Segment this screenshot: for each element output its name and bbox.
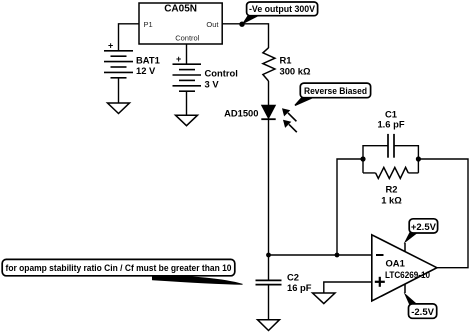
svg-text:R2: R2 xyxy=(386,184,398,195)
svg-text:+: + xyxy=(108,41,113,51)
wire feedback tap up and right xyxy=(337,159,363,255)
svg-text:3 V: 3 V xyxy=(205,79,220,90)
svg-text:R1: R1 xyxy=(280,55,292,66)
node junction (feedback tap) xyxy=(335,253,340,258)
svg-text:300 kΩ: 300 kΩ xyxy=(280,66,311,77)
wire Control battery to ground xyxy=(186,91,188,115)
feedback network frame wires xyxy=(363,146,418,173)
svg-text:OA1: OA1 xyxy=(386,258,405,269)
callout -2.5V supply xyxy=(404,284,437,318)
ground (op-amp +) xyxy=(313,293,336,304)
svg-text:BAT1: BAT1 xyxy=(136,55,160,66)
svg-text:1.6 pF: 1.6 pF xyxy=(377,118,404,129)
svg-text:P1: P1 xyxy=(144,20,153,29)
capacitor C2 xyxy=(256,255,312,293)
svg-text:Control: Control xyxy=(175,34,200,43)
ground (C2) xyxy=(258,320,280,331)
IC U1 CA05N box xyxy=(139,3,222,44)
node right feedback junction xyxy=(416,156,421,161)
wire AD1500 down to input node xyxy=(268,119,270,255)
wire feedback right to output node xyxy=(418,159,468,268)
svg-text:+2.5V: +2.5V xyxy=(411,222,437,233)
svg-text:LTC6269-10: LTC6269-10 xyxy=(385,269,430,280)
photodiode AD1500 xyxy=(224,105,297,132)
svg-text:C2: C2 xyxy=(287,271,299,282)
wire BAT1 to ground xyxy=(118,78,120,103)
light arrow 2 xyxy=(289,124,297,132)
light arrow 1 xyxy=(288,113,296,121)
resistor R2 xyxy=(376,167,409,205)
battery BAT1 xyxy=(104,41,160,78)
battery Control xyxy=(173,54,238,91)
wire C2 to ground xyxy=(268,285,270,320)
node left feedback junction xyxy=(360,156,365,161)
callout Reverse Biased xyxy=(295,83,371,105)
node junction (C2 tap) xyxy=(266,253,271,258)
wire Control pin to Control battery xyxy=(186,44,188,64)
svg-text:1 kΩ: 1 kΩ xyxy=(381,195,402,206)
svg-text:Reverse Biased: Reverse Biased xyxy=(304,86,367,97)
callout +2.5V supply xyxy=(404,219,438,252)
op-amp OA1 xyxy=(372,235,437,301)
svg-text:-2.5V: -2.5V xyxy=(411,307,434,318)
wire Out to R1 (node -Ve) xyxy=(222,24,268,48)
wire P1 to BAT1 xyxy=(119,24,140,51)
svg-text:for opamp stability ratio Cin: for opamp stability ratio Cin / Cf must … xyxy=(6,263,232,274)
svg-text:Control: Control xyxy=(205,68,238,79)
ground (BAT1) xyxy=(108,103,130,114)
wire non-inverting input to ground xyxy=(324,282,372,293)
svg-text:AD1500: AD1500 xyxy=(224,108,258,119)
callout -Ve output 300V xyxy=(239,2,317,27)
svg-text:16 pF: 16 pF xyxy=(287,282,312,293)
ground (Control) xyxy=(176,115,198,126)
resistor R1 xyxy=(263,48,311,81)
svg-text:+: + xyxy=(176,54,181,64)
svg-text:-Ve output 300V: -Ve output 300V xyxy=(249,4,316,15)
svg-text:CA05N: CA05N xyxy=(164,4,197,15)
callout opamp stability note xyxy=(2,259,242,284)
wire input node to op-amp inverting input xyxy=(269,254,372,256)
svg-text:Out: Out xyxy=(206,20,219,29)
capacitor C1 xyxy=(377,108,404,157)
wire R1 to AD1500 xyxy=(268,81,270,105)
svg-text:12 V: 12 V xyxy=(136,65,156,76)
